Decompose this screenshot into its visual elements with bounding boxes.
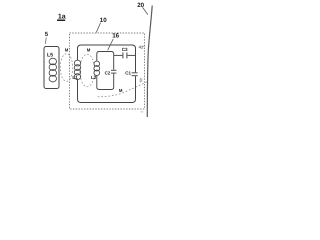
svg-text:C2: C2 [105,70,111,75]
svg-text:M: M [65,47,69,52]
antenna outer loop wire (L1 + C1 loop) [78,45,136,103]
svg-text:M: M [119,88,123,93]
capacitor C2 plates [111,70,117,73]
faint dash bottom right [141,111,144,113]
capacitor C3 plates [123,52,127,58]
svg-text:M: M [87,48,91,53]
capacitor C3 branch wire [114,54,136,56]
svg-text:1a: 1a [58,13,66,20]
inductor L5 coil [49,58,56,82]
leader for 10 [96,23,100,33]
svg-text:20: 20 [137,2,144,9]
svg-text:C3: C3 [122,47,128,52]
svg-text:L5: L5 [47,53,53,59]
feed circuit box 5 [44,47,59,89]
svg-text:L2: L2 [91,75,97,80]
leader for 5 [44,38,47,44]
small mark near C1 [140,78,142,83]
coupling arc C (to conductor 20) [98,82,148,97]
svg-text:16: 16 [112,33,119,40]
inductor L1 coil [74,60,80,79]
coupling ellipse B (L1-L2) [80,54,95,87]
svg-text:C1: C1 [125,70,131,75]
conductor line 20 [147,6,152,118]
capacitor C1 plates [132,73,138,76]
svg-text:L1: L1 [72,75,78,80]
dashed box 10 [70,33,145,109]
leader for 20 [143,7,148,14]
inner resonant loop 16 (L2 + C2) [97,52,114,90]
inductor L2 coil [94,61,100,75]
figure label 1a [57,13,66,21]
coupling ellipse A (L5-L1) [60,54,72,82]
terminal mark 41 [139,44,145,49]
leader for 16 [108,39,114,50]
